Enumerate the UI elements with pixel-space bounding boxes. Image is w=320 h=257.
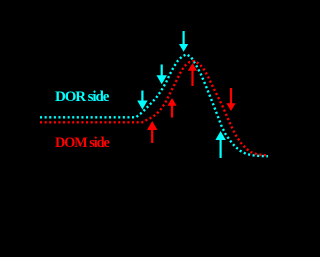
curve: DOM side (red dashed) bbox=[40, 61, 268, 155]
curve: DOR side (cyan dashed) bbox=[40, 54, 268, 156]
cyan down arrow (mid rise) bbox=[157, 65, 167, 85]
cyan down arrow (low rise) bbox=[137, 91, 147, 110]
red up arrow (mid rise) bbox=[167, 98, 176, 118]
red down arrow (right descent) bbox=[226, 88, 235, 111]
label: DOM side bbox=[55, 136, 109, 151]
cyan down arrow at peak bbox=[179, 31, 188, 52]
red up arrow (low rise) bbox=[147, 121, 157, 143]
red up arrow (at peak) bbox=[188, 63, 197, 86]
label: DOR side bbox=[55, 90, 108, 105]
cyan up arrow (right descent) bbox=[215, 131, 225, 158]
